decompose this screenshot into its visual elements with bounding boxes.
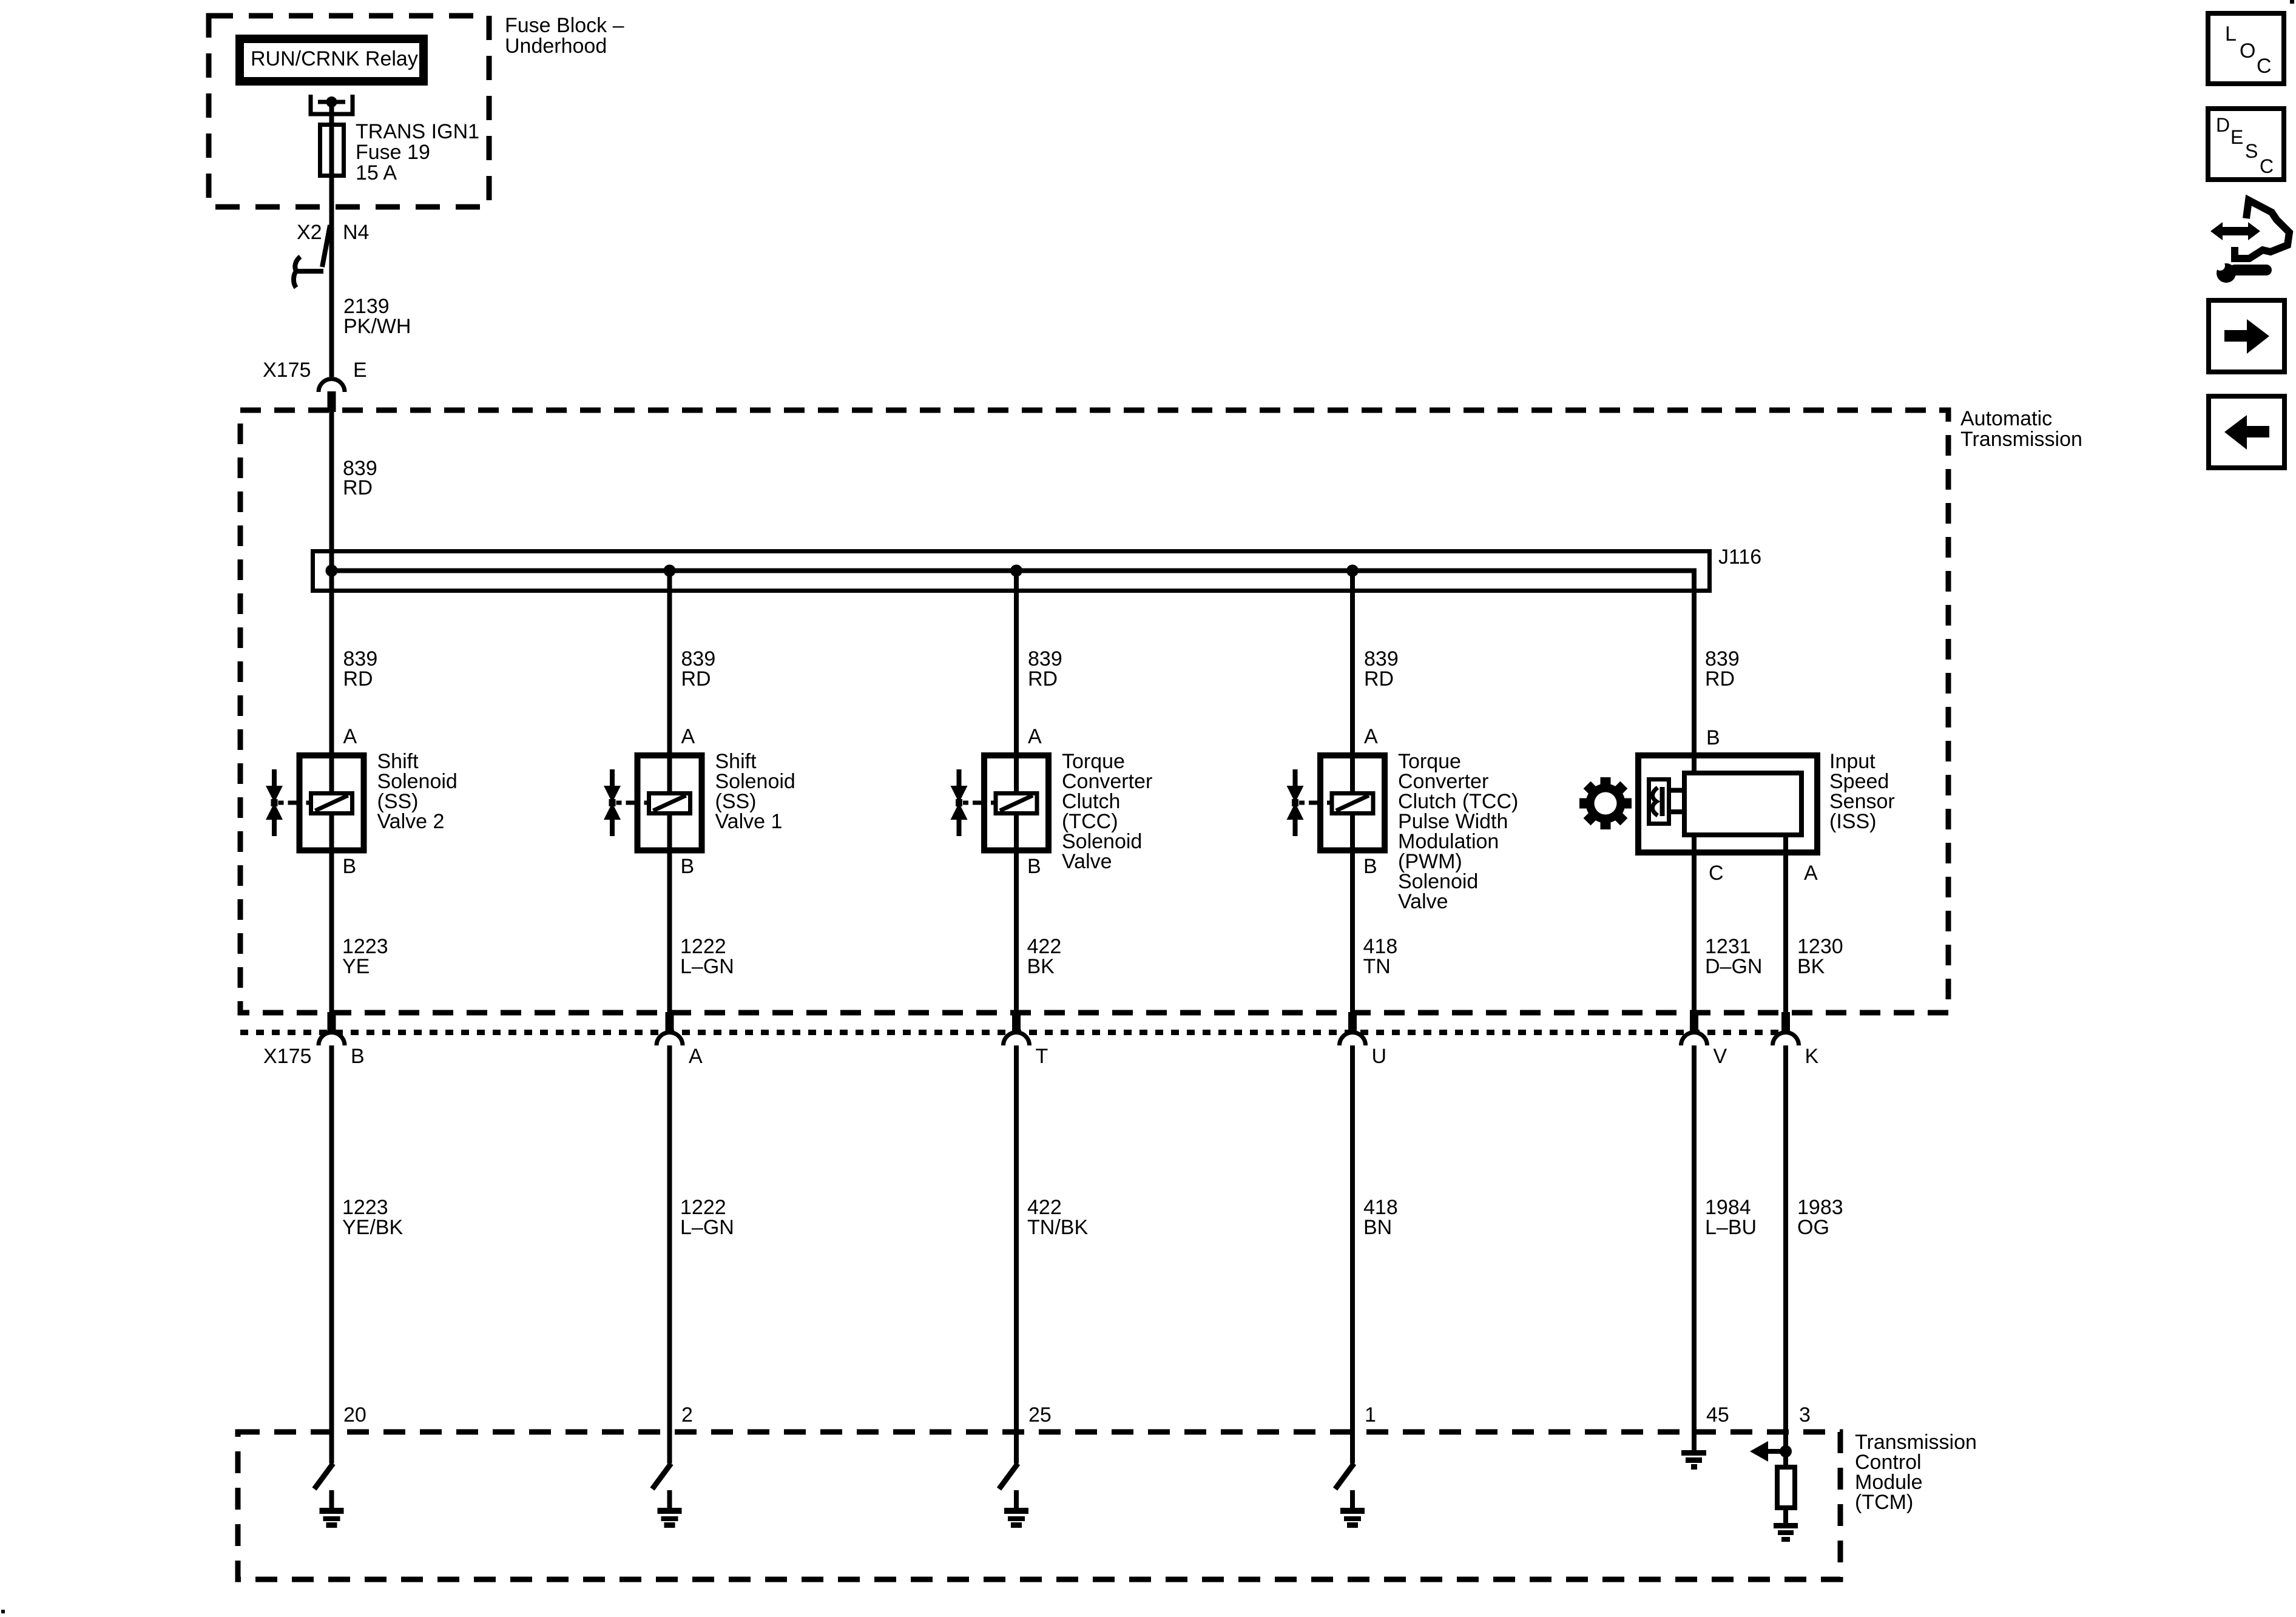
svg-text:A: A — [1804, 862, 1818, 885]
splice bus J116 — [313, 552, 1710, 591]
svg-text:B: B — [1706, 726, 1720, 749]
wrench — [2217, 263, 2272, 283]
ground — [667, 1490, 672, 1509]
svg-text:V: V — [1714, 1045, 1727, 1068]
valve to solenoid link — [279, 801, 284, 805]
svg-text:E: E — [353, 359, 367, 382]
svg-text:2: 2 — [681, 1403, 693, 1426]
wire from solenoid to X175 row — [1014, 814, 1019, 1012]
svg-text:C: C — [2260, 155, 2274, 177]
svg-text:L: L — [2225, 22, 2237, 46]
svg-text:B: B — [343, 855, 357, 878]
svg-text:E: E — [2230, 126, 2243, 148]
valve symbol — [272, 769, 277, 836]
wire from solenoid to X175 row — [667, 814, 672, 1012]
svg-text:J116: J116 — [1718, 545, 1761, 569]
icon: car body outline with wrench (service/adjust) — [2235, 200, 2289, 258]
svg-text:BN: BN — [1363, 1216, 1392, 1239]
TCM low-side driver switch at x=546.5 — [329, 1432, 334, 1463]
svg-text:A: A — [343, 725, 357, 748]
svg-text:N4: N4 — [343, 221, 369, 244]
wire 839 RD to ISS pin B — [1692, 593, 1697, 772]
wire: relay to fuse to connector X175 (ckt 2139) — [329, 102, 334, 377]
svg-text:TN/BK: TN/BK — [1027, 1216, 1088, 1239]
svg-text:Valve: Valve — [1062, 850, 1112, 873]
page artifact dots — [2290, 0, 2294, 4]
double headed arrow — [2210, 222, 2260, 240]
svg-text:RD: RD — [343, 667, 373, 690]
connector X175 pin A — [657, 1033, 683, 1046]
svg-text:Automatic: Automatic — [1960, 407, 2052, 430]
svg-text:Valve 2: Valve 2 — [377, 810, 445, 833]
svg-text:A: A — [681, 725, 695, 748]
inline connector X175 row (dotted) — [240, 1030, 1786, 1035]
icon box DESC — [2208, 109, 2284, 180]
svg-text:D–GN: D–GN — [1705, 955, 1762, 978]
svg-text:TRANS IGN1: TRANS IGN1 — [356, 120, 479, 143]
junction dots on bus J116 — [326, 565, 338, 577]
svg-text:Valve: Valve — [1398, 890, 1448, 913]
svg-text:RUN/CRNK Relay: RUN/CRNK Relay — [251, 47, 418, 70]
svg-text:Valve 1: Valve 1 — [715, 810, 783, 833]
solenoid coil — [311, 794, 353, 814]
svg-text:A: A — [689, 1045, 703, 1068]
valve symbol — [610, 769, 615, 836]
solenoid outer box — [300, 755, 364, 851]
valve to solenoid link — [963, 801, 968, 805]
connector X175 pin T — [1004, 1033, 1030, 1046]
ground — [329, 1490, 334, 1509]
svg-text:O: O — [2240, 39, 2255, 62]
connector X175 pin B — [319, 1033, 345, 1046]
svg-text:OG: OG — [1797, 1216, 1829, 1239]
svg-text:3: 3 — [1799, 1403, 1811, 1426]
fuse block underhood dashed box — [209, 16, 489, 207]
ground — [1014, 1490, 1019, 1509]
svg-text:K: K — [1805, 1045, 1819, 1068]
solenoid outer box — [1320, 755, 1385, 851]
wire ISS C to X175 row — [1692, 836, 1697, 1012]
ISS inner body — [1684, 773, 1801, 835]
svg-text:D: D — [2216, 114, 2230, 136]
svg-text:L–GN: L–GN — [680, 955, 734, 978]
relay RUN/CRNK Relay — [240, 39, 424, 81]
wire 839 RD branch at x=2229.0 — [1350, 570, 1355, 794]
svg-text:(TCM): (TCM) — [1855, 1491, 1913, 1514]
svg-text:YE/BK: YE/BK — [342, 1216, 403, 1239]
gear icon — [1579, 777, 1632, 829]
transmission control module dashed box — [238, 1432, 1840, 1579]
TCM low-side driver switch at x=1103.5 — [667, 1432, 672, 1463]
svg-text:PK/WH: PK/WH — [343, 315, 411, 338]
resistor — [1777, 1467, 1795, 1508]
svg-text:15 A: 15 A — [356, 161, 397, 184]
ground — [1350, 1490, 1355, 1509]
wire from solenoid to X175 row — [1350, 814, 1355, 1012]
fuse TRANS IGN1 Fuse 19 15A — [320, 125, 344, 176]
icon box back arrow — [2209, 396, 2284, 468]
svg-text:25: 25 — [1028, 1403, 1052, 1426]
input speed sensor ISS outer box — [1638, 755, 1817, 852]
svg-text:U: U — [1372, 1045, 1387, 1068]
svg-text:X175: X175 — [263, 359, 311, 382]
TCM pin 45 ground — [1692, 1432, 1697, 1451]
svg-text:BK: BK — [1797, 955, 1825, 978]
connector X175 pin U — [1340, 1033, 1366, 1046]
svg-text:S: S — [2245, 140, 2258, 162]
ISS pickup element — [1649, 780, 1669, 824]
icon box LOC — [2208, 13, 2284, 84]
svg-text:X175: X175 — [263, 1045, 311, 1068]
svg-text:B: B — [1363, 855, 1377, 878]
svg-text:C: C — [2257, 55, 2272, 78]
TCM low-side driver switch at x=2229.0 — [1350, 1432, 1355, 1463]
svg-text:BK: BK — [1027, 955, 1055, 978]
solenoid coil — [996, 794, 1037, 814]
svg-text:T: T — [1036, 1045, 1048, 1068]
svg-text:Fuse Block –: Fuse Block – — [505, 14, 624, 37]
svg-text:RD: RD — [1705, 667, 1735, 690]
ISS element links — [1669, 788, 1684, 793]
solenoid outer box — [638, 755, 702, 851]
solenoid outer box — [984, 755, 1048, 851]
inline connector X175 pin E — [319, 379, 345, 393]
svg-text:RD: RD — [343, 476, 373, 499]
svg-text:A: A — [1028, 725, 1042, 748]
svg-text:L–GN: L–GN — [680, 1216, 734, 1239]
svg-text:A: A — [1364, 725, 1378, 748]
svg-text:RD: RD — [681, 667, 711, 690]
connector X175 pin K — [1773, 1033, 1799, 1046]
valve to solenoid link — [616, 801, 622, 805]
svg-text:1: 1 — [1365, 1403, 1376, 1426]
solenoid coil — [649, 794, 690, 814]
relay output terminal bracket — [311, 95, 353, 114]
wire 839 RD branch at x=1103.5 — [667, 570, 672, 794]
svg-text:YE: YE — [342, 955, 370, 978]
svg-text:45: 45 — [1706, 1403, 1729, 1426]
wire ISS A to X175 row — [1783, 836, 1788, 1012]
svg-text:L–BU: L–BU — [1705, 1216, 1757, 1239]
svg-text:RD: RD — [1364, 667, 1394, 690]
wire 839 RD from X175 to splice bus — [329, 412, 334, 794]
TCM pin 3 network: node, arrow to other circuit, pull resistor, ground — [1783, 1432, 1788, 1467]
svg-text:20: 20 — [343, 1403, 366, 1426]
TCM low-side driver switch at x=1675.0 — [1014, 1432, 1019, 1463]
wire 839 RD branch at x=1675.0 — [1014, 570, 1019, 794]
connector X175 pin V — [1681, 1033, 1707, 1046]
svg-text:Fuse 19: Fuse 19 — [356, 141, 430, 164]
valve to solenoid link — [1299, 801, 1305, 805]
icon box forward arrow — [2209, 300, 2284, 372]
svg-text:B: B — [1027, 855, 1041, 878]
svg-text:B: B — [681, 855, 695, 878]
solenoid coil — [1332, 794, 1373, 814]
automatic transmission dashed box — [240, 410, 1948, 1013]
connector X2 pin N4 terminal symbol — [294, 225, 330, 288]
wire from solenoid to X175 row — [329, 814, 334, 1012]
valve symbol — [1293, 769, 1298, 836]
svg-text:RD: RD — [1028, 667, 1058, 690]
wire 839 RD branch at x=546.5 — [329, 570, 334, 794]
svg-text:C: C — [1709, 862, 1724, 885]
svg-text:TN: TN — [1363, 955, 1391, 978]
svg-text:(ISS): (ISS) — [1829, 810, 1876, 833]
valve symbol — [957, 769, 962, 836]
ground — [1774, 1523, 1798, 1528]
svg-text:Transmission: Transmission — [1960, 428, 2082, 451]
svg-text:X2: X2 — [297, 221, 322, 244]
svg-text:B: B — [351, 1045, 365, 1068]
svg-text:Underhood: Underhood — [505, 35, 607, 58]
